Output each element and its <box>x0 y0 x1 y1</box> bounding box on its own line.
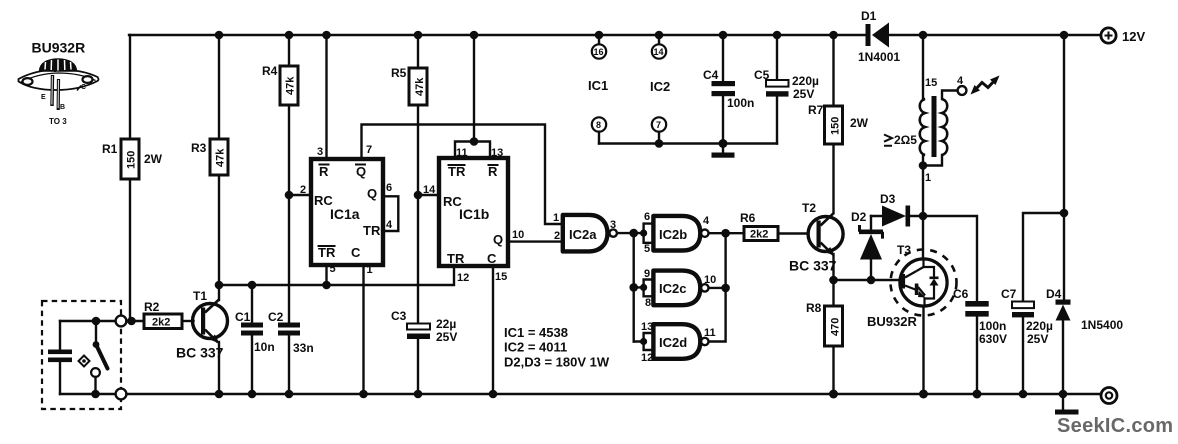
svg-text:C: C <box>487 251 497 266</box>
svg-text:RC: RC <box>314 193 333 208</box>
svg-text:470: 470 <box>830 318 842 336</box>
wire: R6 to T2 base <box>778 232 808 234</box>
wire: IC1b pin 15 (C) to ground rail <box>493 266 507 394</box>
resistor R7 150 2W <box>808 103 869 144</box>
transistor package drawing BU932R (TO-3 case) <box>19 40 99 127</box>
wire: IC2d output and paralleled output column <box>709 233 726 341</box>
node: D3 cathode / coil pin1 / T3 collector / C6 <box>919 212 928 221</box>
node: switch bottom junction <box>91 390 100 399</box>
svg-text:T3: T3 <box>897 243 911 257</box>
transistor T2 BC337 <box>789 201 843 274</box>
op-amp-block IC1b (4538 monostable half) <box>439 158 508 266</box>
svg-text:10n: 10n <box>254 340 275 354</box>
diode D3 <box>871 192 923 227</box>
svg-text:3: 3 <box>610 219 616 231</box>
transistor T3 BU932R (darlington) <box>867 243 957 329</box>
svg-text:BU932R: BU932R <box>867 314 917 329</box>
svg-text:11: 11 <box>456 147 468 159</box>
svg-text:2: 2 <box>300 184 306 196</box>
svg-text:12: 12 <box>457 272 469 284</box>
transformer: core bar <box>932 96 937 157</box>
svg-text:C5: C5 <box>754 68 770 82</box>
svg-text:14: 14 <box>423 184 436 196</box>
wire: coil pin1 down to T3 collector <box>922 155 924 259</box>
wire: R1 column from +12V rail to pickup node <box>129 35 131 321</box>
wire: IC2b tied inputs <box>629 211 653 255</box>
svg-text:E: E <box>41 94 46 101</box>
svg-text:16: 16 <box>594 47 604 57</box>
svg-text:C6: C6 <box>953 287 969 301</box>
svg-text:25V: 25V <box>436 330 457 344</box>
svg-text:D1: D1 <box>861 9 877 23</box>
svg-text:7: 7 <box>656 120 661 130</box>
svg-text:BC 337: BC 337 <box>789 258 837 274</box>
svg-text:8: 8 <box>645 297 651 309</box>
svg-text:C: C <box>81 84 86 91</box>
capacitor C2 33n <box>268 310 314 355</box>
svg-text:2W: 2W <box>850 116 869 130</box>
svg-text:IC2c: IC2c <box>659 281 686 296</box>
svg-text:C2: C2 <box>268 310 284 324</box>
switch (breaker contact) <box>91 321 107 394</box>
wire: IC1a pin 7 (Q-bar) to IC2a pin 1 <box>362 125 563 225</box>
resistor R2 2k2 <box>144 300 182 329</box>
terminal: pickup bottom <box>116 389 127 400</box>
svg-text:1: 1 <box>553 212 559 224</box>
svg-text:D4: D4 <box>1046 287 1062 301</box>
resistor R6 2k2 <box>740 211 778 241</box>
transformer: ignition coil primary (pins 15-1) <box>920 77 938 184</box>
wire: coil primary column from rail <box>922 35 924 99</box>
IC1 power pin 16 <box>592 35 606 59</box>
svg-text:7: 7 <box>366 144 372 156</box>
svg-text:2k2: 2k2 <box>152 317 170 329</box>
note: device equivalences text <box>504 325 610 370</box>
node: R1/R2 junction <box>127 317 136 326</box>
label: winding resistance >=2R5 <box>884 133 917 147</box>
svg-text:TR: TR <box>448 164 466 179</box>
svg-text:47k: 47k <box>285 76 297 95</box>
wire: IC2a output to inverter column <box>617 232 634 234</box>
svg-text:BC 337: BC 337 <box>176 345 224 361</box>
svg-text:RC: RC <box>443 194 462 209</box>
wire: inverter input column <box>633 233 635 341</box>
node: coil bottom junction <box>919 161 928 170</box>
wire: terminal to R2 <box>127 320 145 322</box>
svg-text:TO 3: TO 3 <box>49 117 67 126</box>
svg-text:10: 10 <box>704 274 716 286</box>
wire: IC ground rail <box>599 139 777 148</box>
svg-text:R6: R6 <box>740 211 756 225</box>
svg-text:D3: D3 <box>880 192 896 206</box>
wire: T1 collector up to timing node <box>218 285 220 300</box>
wire: T2 emitter to base node of T3 <box>832 254 834 280</box>
wire: +12V top rail (left of D1) <box>129 34 866 36</box>
wire: T1 emitter down to ground rail <box>218 342 220 394</box>
wire: IC2c tied inputs <box>629 268 653 309</box>
svg-text:15: 15 <box>925 77 937 89</box>
svg-text:IC2 = 4011: IC2 = 4011 <box>504 340 567 355</box>
wire: C7 top branch <box>1023 209 1068 394</box>
svg-text:C4: C4 <box>703 68 719 82</box>
wire: T3 emitter to ground rail <box>922 306 924 394</box>
wire: timing node (T1 collector / C1 / pin5 / pin12) <box>219 266 454 285</box>
svg-text:Q: Q <box>493 232 503 247</box>
svg-text:D2: D2 <box>851 210 867 224</box>
svg-text:6: 6 <box>386 182 392 194</box>
node: switch top junction <box>92 317 101 326</box>
svg-text:R: R <box>488 164 498 179</box>
wire: R2 to T1 base <box>182 320 194 322</box>
terminal: ground output <box>1101 388 1117 404</box>
svg-text:2k2: 2k2 <box>750 229 768 241</box>
transistor T1 BC337 <box>176 289 228 361</box>
svg-text:630V: 630V <box>979 332 1007 346</box>
resistor R1 150 2W <box>102 139 163 179</box>
diode D1 1N4001 <box>858 9 900 64</box>
svg-text:IC1a: IC1a <box>330 206 360 222</box>
svg-text:13: 13 <box>491 147 503 159</box>
IC2 label <box>650 79 670 94</box>
IC1 label <box>588 78 608 93</box>
wire: output column to R6 <box>726 232 744 234</box>
svg-text:R2: R2 <box>144 300 160 314</box>
svg-text:150: 150 <box>830 117 842 135</box>
svg-text:47k: 47k <box>215 148 227 167</box>
wire: IC2d tied inputs <box>634 321 654 364</box>
svg-text:D2,D3 = 180V 1W: D2,D3 = 180V 1W <box>504 355 610 370</box>
wire: ground bottom rail <box>127 393 1101 395</box>
svg-text:R: R <box>319 164 329 179</box>
svg-text:R3: R3 <box>191 141 207 155</box>
svg-text:5: 5 <box>330 263 336 275</box>
svg-text:6: 6 <box>644 211 650 223</box>
svg-text:IC1 = 4538: IC1 = 4538 <box>504 325 568 340</box>
svg-text:Q: Q <box>367 186 377 201</box>
wire: IC1a pin 5 (TR-bar) to timing node <box>327 263 336 285</box>
IC2 power pin 14 <box>652 35 666 59</box>
svg-text:14: 14 <box>654 47 664 57</box>
nand-gate IC2d <box>653 324 715 359</box>
nand-gate IC2a <box>553 212 617 251</box>
wire: IC1a pin 3 (reset) to VCC rail <box>317 35 327 159</box>
svg-text:C7: C7 <box>1001 287 1017 301</box>
svg-text:1: 1 <box>925 172 931 184</box>
zener diode D2 <box>851 210 883 280</box>
nand-gate IC2c <box>653 271 716 306</box>
svg-text:TR: TR <box>447 251 465 266</box>
capacitor C6 100n 630V <box>923 216 1007 394</box>
IC1 ground pin 8 <box>592 117 606 143</box>
svg-text:R7: R7 <box>808 103 824 117</box>
capacitor C7 220u 25V (electrolytic) <box>1001 287 1053 346</box>
wire: R4 column (VCC to RC1 node to C2) <box>288 35 290 394</box>
svg-text:1: 1 <box>367 264 373 276</box>
svg-text:220µ: 220µ <box>1026 319 1053 333</box>
wire: R7 column (VCC to T2 collector) <box>832 35 834 213</box>
diode D4 1N5400 <box>1046 287 1123 394</box>
svg-text:IC1b: IC1b <box>459 206 489 222</box>
svg-text:150: 150 <box>126 151 138 169</box>
resistor R4 47k <box>262 64 298 105</box>
svg-text:R4: R4 <box>262 64 278 78</box>
svg-text:2: 2 <box>554 230 560 242</box>
svg-text:25V: 25V <box>793 87 814 101</box>
IC2 ground pin 7 <box>652 117 666 143</box>
wire: IC2b output to paralleled output column <box>709 229 730 238</box>
spark symbol (lightning arrows) <box>971 76 1000 95</box>
op-amp-block IC1a (4538 monostable half) <box>311 159 383 265</box>
svg-text:2W: 2W <box>144 152 163 166</box>
resistor R8 470 <box>806 280 843 394</box>
svg-text:SeekIC.com: SeekIC.com <box>1057 415 1173 437</box>
svg-text:T1: T1 <box>193 289 207 303</box>
svg-text:R1: R1 <box>102 142 118 156</box>
svg-text:C: C <box>351 245 361 260</box>
svg-text:1N5400: 1N5400 <box>1081 318 1123 332</box>
svg-text:B: B <box>60 104 65 111</box>
svg-text:BU932R: BU932R <box>32 40 86 56</box>
resistor R3 47k <box>191 139 228 175</box>
wire: IC1a pin 6 to pin 4 feedback loop <box>383 182 398 231</box>
svg-text:47k: 47k <box>414 77 426 96</box>
svg-text:IC2: IC2 <box>650 79 670 94</box>
svg-text:C3: C3 <box>391 309 407 323</box>
svg-text:Q: Q <box>356 164 366 179</box>
node: bottom rail junctions <box>215 390 1068 399</box>
svg-text:11: 11 <box>704 327 716 339</box>
pickup sensor dashed enclosure <box>42 301 121 409</box>
wire: IC1b pin 10 (Q) to IC2a pin 2 <box>508 229 563 242</box>
svg-text:TR: TR <box>318 245 336 260</box>
wire: T3 base node (T2 emitter / R8 / D2 / T3) <box>829 276 900 285</box>
svg-text:IC2d: IC2d <box>659 335 687 350</box>
transformer: secondary winding (pin 4) <box>923 75 964 166</box>
svg-text:15: 15 <box>495 271 507 283</box>
svg-text:4: 4 <box>386 219 393 231</box>
wire: IC1b pin 14 (RC) from R5/C3 column <box>414 184 439 199</box>
node: timing node junctions <box>215 281 331 290</box>
svg-text:2Ω5: 2Ω5 <box>894 133 917 147</box>
svg-text:IC1: IC1 <box>588 78 608 93</box>
wire: D4 column from VCC rail <box>1063 35 1065 300</box>
ground symbol (main, bottom right) <box>1055 394 1079 415</box>
wire: IC1b pins 11+13 bridge to VCC <box>455 35 503 159</box>
wire: IC1a pin 2 (RC) from R4/C2 column <box>285 184 311 199</box>
svg-text:12V: 12V <box>1122 29 1145 44</box>
capacitor C4 100n <box>703 35 754 144</box>
svg-text:9: 9 <box>644 268 650 280</box>
watermark SeekIC.com <box>1057 415 1173 437</box>
svg-text:100n: 100n <box>979 319 1006 333</box>
svg-text:33n: 33n <box>293 341 314 355</box>
wire: pickup top wire <box>60 320 116 322</box>
nand-gate IC2b <box>653 215 710 251</box>
terminal: HT output (pin 4, to spark plug) <box>958 86 967 95</box>
svg-text:IC2a: IC2a <box>569 227 597 242</box>
terminal: pickup top <box>116 316 127 327</box>
svg-text:C1: C1 <box>235 310 251 324</box>
wire: pickup bottom wire <box>60 393 116 395</box>
svg-text:5: 5 <box>644 243 650 255</box>
svg-text:10: 10 <box>512 229 524 241</box>
svg-text:220µ: 220µ <box>792 74 819 88</box>
svg-text:R8: R8 <box>806 301 822 315</box>
terminal: +12V supply <box>1101 28 1146 44</box>
svg-text:100n: 100n <box>727 96 754 110</box>
wire: IC2c output to paralleled output column <box>709 284 730 293</box>
wire: R5 column (VCC to RC2 node to C3) <box>417 35 419 394</box>
svg-text:3: 3 <box>317 146 323 158</box>
capacitor (pickup, unlabeled) <box>48 321 72 394</box>
node: top rail junctions <box>215 31 1069 40</box>
actuator symbol (diamond with dot) <box>79 356 90 367</box>
capacitor C1 10n <box>235 285 275 394</box>
wire: +12V top rail (right of D1) <box>889 34 1101 36</box>
svg-text:TR: TR <box>363 223 381 238</box>
wire: R3 column <box>218 35 220 285</box>
svg-text:22µ: 22µ <box>436 317 456 331</box>
capacitor C5 220u 25V (electrolytic) <box>754 35 819 144</box>
svg-text:8: 8 <box>596 120 601 130</box>
svg-text:4: 4 <box>703 215 710 227</box>
svg-text:IC2b: IC2b <box>659 227 687 242</box>
ground symbol (IC supply) <box>712 144 735 158</box>
capacitor C3 22u 25V (electrolytic) <box>391 309 457 344</box>
svg-text:1N4001: 1N4001 <box>858 50 900 64</box>
svg-text:R5: R5 <box>391 66 407 80</box>
svg-text:25V: 25V <box>1027 332 1048 346</box>
wire: IC1b pin 12 (TR) label <box>457 272 469 284</box>
svg-text:T2: T2 <box>802 201 816 215</box>
wire: IC1a pin 1 (C) to ground rail <box>364 264 373 394</box>
resistor R5 47k <box>391 66 427 105</box>
